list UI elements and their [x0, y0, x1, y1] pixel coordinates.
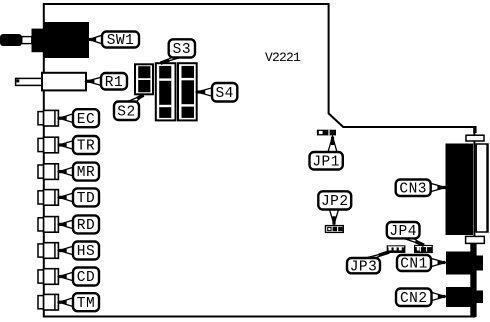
LED TR holder [38, 137, 58, 153]
switch SW1 shaft [22, 37, 32, 44]
svg-text:HS: HS [77, 244, 95, 260]
svg-text:JP4: JP4 [389, 224, 417, 240]
callout label R1 [87, 73, 128, 91]
LED HS holder [38, 243, 58, 259]
callout label SW1 [89, 32, 139, 50]
svg-text:R1: R1 [105, 75, 123, 91]
callout label S2 [114, 95, 144, 120]
bracket tab top [466, 135, 484, 141]
svg-text:TM: TM [77, 296, 95, 312]
connector CN2 (phone jack) [446, 287, 483, 307]
LED RD holder [38, 217, 58, 233]
svg-text:V2221: V2221 [265, 50, 301, 65]
svg-text:TD: TD [77, 191, 95, 207]
DIP switch S3 [156, 63, 176, 120]
callout label S4 [197, 83, 237, 102]
jumper block JP2 [325, 225, 344, 233]
svg-text:RD: RD [77, 218, 95, 234]
svg-text:CN3: CN3 [399, 181, 427, 197]
svg-text:TR: TR [77, 139, 95, 155]
svg-text:JP2: JP2 [321, 194, 349, 210]
DIP switch S4 [178, 63, 197, 120]
svg-text:S3: S3 [173, 42, 191, 58]
callout label HS [59, 242, 99, 261]
potentiometer R1 body [42, 73, 86, 91]
LED TM holder [38, 294, 58, 310]
callout label CD [59, 268, 99, 287]
svg-text:S4: S4 [215, 86, 233, 102]
svg-text:EC: EC [77, 112, 95, 128]
svg-text:MR: MR [77, 165, 95, 181]
callout label TM [59, 293, 99, 312]
jumper block JP4 [414, 245, 433, 253]
callout label JP2 [318, 191, 351, 224]
DB25 shell outside bracket [476, 144, 488, 232]
callout label JP1 [310, 137, 343, 171]
LED EC holder [38, 110, 58, 126]
DIP switch S2 [135, 64, 153, 94]
jumper block JP1 [317, 130, 336, 136]
callout label EC [59, 109, 99, 128]
svg-text:JP1: JP1 [312, 154, 340, 170]
callout label MR [59, 163, 99, 182]
LED TD holder [38, 190, 58, 206]
svg-text:CN1: CN1 [400, 257, 428, 273]
connector CN3 (DB25) body [446, 144, 474, 236]
switch SW1 body [32, 22, 90, 58]
bracket corner joint [473, 126, 476, 133]
callout label CN3 [396, 180, 446, 198]
callout label TR [59, 136, 99, 155]
jumper block JP3 [387, 245, 406, 253]
svg-text:CD: CD [77, 270, 95, 286]
callout label S3 [161, 39, 196, 63]
bracket bar [470, 243, 476, 317]
callout label JP3 [347, 252, 389, 275]
LED MR holder [38, 164, 58, 180]
callout label RD [59, 215, 99, 234]
svg-text:S2: S2 [117, 104, 135, 120]
connector CN1 (phone jack) [446, 252, 483, 275]
LED CD holder [38, 269, 58, 285]
bracket tab bottom [466, 236, 485, 243]
callout label TD [59, 188, 99, 207]
potentiometer R1 shaft [16, 78, 43, 85]
switch SW1 knob [0, 34, 22, 46]
svg-text:SW1: SW1 [107, 33, 135, 49]
svg-text:JP3: JP3 [350, 259, 378, 275]
svg-text:CN2: CN2 [400, 291, 428, 307]
callout label CN2 [396, 289, 446, 307]
callout label CN1 [397, 255, 446, 273]
callout label JP4 [387, 222, 424, 245]
